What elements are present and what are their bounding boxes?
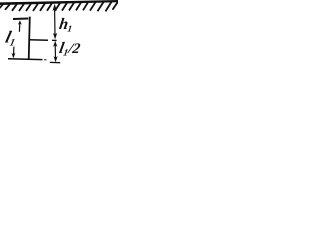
bottom-left line (8, 58, 43, 61)
bottom termination tick (50, 61, 60, 63)
shelf bar (13, 17, 28, 20)
dimension h1 down arrow (53, 33, 57, 40)
dimension l1 top arrow (18, 20, 22, 25)
dimension l1/2 down arrow (54, 56, 58, 62)
svg-text:l1/2: l1/2 (58, 40, 82, 58)
svg-text:l1: l1 (3, 28, 18, 49)
dimension l1 bottom arrow (12, 53, 16, 59)
svg-text:h1: h1 (58, 16, 74, 34)
dimension l1 bottom shaft (13, 47, 15, 56)
ceiling hatch strokes (0, 1, 119, 12)
dimension h1 up arrow at ceiling (53, 4, 57, 11)
dimension l1 top shaft (18, 23, 20, 32)
dimension l1/2 up arrow under bar (53, 41, 57, 47)
ceiling line (0, 0, 118, 5)
bracket vertical (29, 17, 30, 60)
bracket horizontal (29, 39, 48, 42)
dimension l1/2 shaft (54, 45, 56, 58)
dimension h1 shaft (54, 9, 56, 35)
